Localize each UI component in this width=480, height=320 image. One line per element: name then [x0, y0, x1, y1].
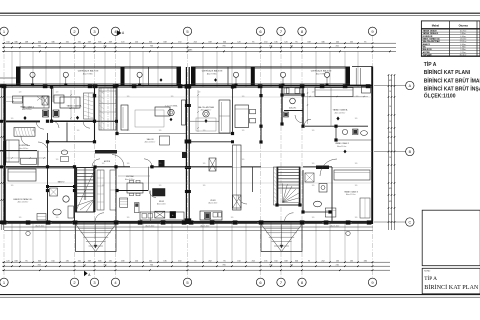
svg-text:120: 120 — [242, 130, 245, 132]
right vertical dimension chain — [388, 75, 390, 230]
right wall y133.5 — [190, 133, 233, 135]
left hall dark counter — [95, 150, 117, 154]
svg-text:120: 120 — [159, 163, 162, 165]
svg-text:120: 120 — [355, 118, 358, 120]
left wall y133.5 living — [117, 133, 186, 135]
grid axis dashed lines — [3, 36, 5, 277]
windows in bottom wall — [8, 221, 26, 223]
svg-text:9.98m²: 9.98m² — [460, 48, 466, 51]
svg-text:120: 120 — [312, 185, 315, 187]
svg-text:YATAK ODASI 2: YATAK ODASI 2 — [335, 142, 349, 145]
svg-text:Alan:13.18m²: Alan:13.18m² — [18, 201, 29, 204]
svg-text:Alan:12.0m²: Alan:12.0m² — [346, 193, 356, 196]
left pantry shelf — [120, 198, 128, 207]
left wall x94.5 — [94, 85, 96, 142]
svg-text:120: 120 — [127, 130, 130, 132]
left lower vertical walls — [47, 168, 49, 222]
left lower-left wardrobe — [14, 128, 35, 137]
svg-text:120: 120 — [312, 163, 315, 165]
svg-text:120: 120 — [389, 143, 392, 145]
svg-text:Alan:0.20m²: Alan:0.20m² — [208, 202, 218, 205]
svg-text:120: 120 — [355, 185, 358, 187]
svg-text:120: 120 — [77, 130, 80, 132]
window axis light verticals bottom — [11, 222, 13, 262]
left entry protrusion — [76, 224, 117, 252]
grid bubbles top — [0, 27, 8, 35]
svg-text:120: 120 — [11, 185, 14, 187]
svg-text:120: 120 — [127, 96, 130, 98]
interior dim string x307.5 — [307, 88, 309, 124]
svg-text:BİRİNCİ KAT PLAN: BİRİNCİ KAT PLAN — [424, 284, 479, 291]
svg-text:Alan:8.20m²: Alan:8.20m² — [125, 178, 135, 181]
svg-text:KİLER: KİLER — [210, 199, 216, 202]
svg-text:YATAK ODASI 3: YATAK ODASI 3 — [344, 191, 358, 194]
svg-text:MUTFAK: MUTFAK — [126, 175, 134, 178]
right small wc below bedroom — [335, 126, 337, 140]
interior dim string y176 mid — [118, 175, 150, 177]
right stair — [277, 167, 300, 205]
interior dim string y158 — [6, 157, 46, 159]
svg-text:YATAK ODASI: YATAK ODASI — [423, 30, 437, 33]
svg-text:345: 345 — [389, 173, 392, 175]
svg-text:SALON: SALON — [147, 138, 154, 141]
svg-text:BALKON: BALKON — [423, 48, 432, 51]
svg-text:EBEVEYN YATAK OD.: EBEVEYN YATAK OD. — [13, 198, 33, 201]
left wall bedroom divider x51.5 — [51, 87, 53, 121]
internal reference line y167.5 — [5, 167, 372, 169]
svg-text:YATAK ODASI 1: YATAK ODASI 1 — [20, 105, 34, 108]
svg-text:Alan:22.61m²: Alan:22.61m² — [145, 141, 156, 144]
svg-text:Mahal: Mahal — [432, 23, 440, 27]
right wc core — [281, 86, 283, 124]
svg-text:120: 120 — [203, 185, 206, 187]
right sofa strip — [219, 100, 230, 133]
svg-text:BANYO: BANYO — [58, 180, 65, 183]
balcony column marker — [63, 72, 68, 77]
page bottom border — [0, 294, 480, 296]
left wall x117 — [116, 85, 118, 134]
left closet strip x99-116 — [99, 88, 116, 130]
svg-text:120: 120 — [159, 185, 162, 187]
svg-text:120: 120 — [19, 163, 22, 165]
title block bottom right — [422, 268, 480, 294]
bottom terrace strip — [4, 226, 373, 228]
svg-text:KORİDOR: KORİDOR — [423, 35, 433, 38]
svg-text:Alan 0.20m²: Alan 0.20m² — [157, 202, 167, 205]
svg-text:ÜZERİ AÇIK BALKON: ÜZERİ AÇIK BALKON — [202, 70, 223, 73]
building top main wall — [4, 85, 373, 87]
svg-text:ÜZERİ AÇIK BALKON: ÜZERİ AÇIK BALKON — [311, 70, 332, 73]
right salon round table — [203, 111, 209, 117]
left vertical dimension chain — [0, 85, 2, 230]
svg-text:Alan:9.98m²: Alan:9.98m² — [207, 72, 218, 75]
left bed 2 — [60, 97, 80, 108]
svg-text:345: 345 — [389, 201, 392, 203]
section marker bottom — [84, 271, 88, 277]
svg-text:120: 120 — [19, 92, 22, 94]
right entry protrusion — [261, 224, 302, 252]
svg-text:120: 120 — [127, 163, 130, 165]
svg-text:120: 120 — [203, 163, 206, 165]
svg-text:YATAK ODASI 2: YATAK ODASI 2 — [423, 32, 439, 35]
balcony column marker — [233, 72, 238, 77]
right thin wall x331 — [330, 87, 332, 126]
svg-text:95: 95 — [389, 157, 391, 159]
wall column blobs bottom — [2, 220, 7, 224]
left corridor vertical x67 — [66, 122, 68, 141]
svg-text:Alan:3.20m²: Alan:3.20m² — [145, 225, 155, 228]
svg-text:3.20m²: 3.20m² — [460, 51, 466, 54]
right bedroom mid bed — [235, 105, 249, 128]
svg-text:Alan:4.40m²: Alan:4.40m² — [19, 147, 29, 150]
left small wc fixtures — [61, 150, 67, 155]
right lower corner room (bedroom) — [334, 170, 370, 180]
svg-text:Alan:9.98m²: Alan:9.98m² — [316, 72, 327, 75]
bottom dimension chain — [2, 261, 390, 263]
right bedroom A — [305, 125, 368, 127]
right exterior wall — [371, 67, 373, 224]
right walls y167 — [190, 166, 232, 168]
svg-text:ANTRE: ANTRE — [423, 51, 431, 54]
svg-text:SALON+MUTFAK: SALON+MUTFAK — [423, 40, 441, 43]
svg-text:120: 120 — [11, 118, 14, 120]
svg-text:BİRİNCİ KAT BRÜT İMAR A: BİRİNCİ KAT BRÜT İMAR A — [424, 77, 480, 84]
svg-text:ANTRE: ANTRE — [104, 160, 111, 163]
left kitchen fridge — [135, 203, 140, 213]
balcony column marker — [30, 72, 35, 77]
svg-text:Oturma: Oturma — [459, 23, 469, 27]
interior wall junction blobs — [46, 120, 49, 123]
left round table — [168, 109, 174, 115]
svg-text:13.18m²: 13.18m² — [460, 37, 467, 40]
left dresser — [13, 96, 23, 103]
area table top right — [421, 21, 480, 57]
left radiator boxes — [43, 110, 49, 117]
left table — [155, 107, 170, 116]
svg-text:120: 120 — [355, 163, 358, 165]
svg-text:120: 120 — [389, 132, 392, 134]
svg-text:Alan:3.20m²: Alan:3.20m² — [35, 225, 45, 228]
svg-text:95: 95 — [389, 106, 391, 108]
svg-text:DUŞ+WC: DUŞ+WC — [289, 108, 297, 110]
left wall y167 — [6, 166, 74, 168]
internal reference line y183 — [5, 182, 372, 184]
svg-text:4.40m²: 4.40m² — [460, 35, 466, 38]
svg-text:120: 120 — [56, 92, 59, 94]
svg-text:KORİDOR: KORİDOR — [19, 144, 29, 147]
top dimension chain — [2, 42, 396, 44]
right corridor wall y141.8 — [190, 141, 233, 143]
svg-text:YATAK ODASI A: YATAK ODASI A — [67, 104, 82, 107]
svg-text:120: 120 — [102, 92, 105, 94]
interior dim string y96.5 right — [305, 96, 368, 98]
left bathroom — [63, 196, 69, 202]
left lower bedroom bed — [8, 169, 36, 181]
left corridor walls — [47, 133, 49, 168]
left kitchen divider verticals — [148, 167, 150, 191]
left living rug — [135, 110, 164, 127]
right entry door — [285, 213, 294, 222]
svg-text:1.98m²: 1.98m² — [460, 45, 466, 48]
svg-text:120: 120 — [32, 130, 35, 132]
left edge wall stubs — [0, 120, 3, 123]
left lower room dresser — [37, 214, 46, 221]
svg-text:Alan:9.98m²: Alan:9.98m² — [83, 72, 94, 75]
balcony band 16-181 — [16, 66, 181, 68]
row bubbles A B C — [374, 85, 406, 87]
svg-text:120: 120 — [231, 217, 234, 219]
svg-text:TİP A: TİP A — [424, 275, 437, 282]
window axis light verticals top — [11, 51, 13, 87]
svg-text:ÜZERİ AÇIK BALKON: ÜZERİ AÇIK BALKON — [78, 70, 99, 73]
svg-text:95: 95 — [389, 91, 391, 93]
left corridor extra walls — [0, 150, 37, 152]
svg-text:120: 120 — [102, 185, 105, 187]
central party wall — [185, 67, 187, 222]
left door arcs — [36, 121, 44, 129]
interior dim string x198 — [197, 90, 199, 132]
svg-text:BANYO: BANYO — [423, 43, 431, 46]
svg-text:120: 120 — [312, 130, 315, 132]
svg-text:BİRİNCİ KAT BRÜT İNŞAA: BİRİNCİ KAT BRÜT İNŞAA — [424, 85, 480, 92]
left stairwell — [76, 168, 95, 213]
wall column blobs top — [2, 84, 7, 88]
svg-text:120: 120 — [56, 159, 59, 161]
svg-text:YATAK ODASI A: YATAK ODASI A — [333, 109, 348, 112]
svg-text:120: 120 — [312, 92, 315, 94]
section marker top — [117, 30, 122, 36]
right wall x261 — [260, 85, 262, 142]
balcony column marker — [324, 72, 329, 77]
right kitchen — [209, 158, 216, 171]
balcony band 191-350 — [191, 66, 350, 68]
svg-text:EBEV. YATAK OD.: EBEV. YATAK OD. — [423, 37, 441, 40]
svg-text:345: 345 — [389, 80, 392, 82]
svg-text:120: 120 — [159, 130, 162, 132]
right tall cabinet x232-241 — [233, 145, 242, 210]
svg-text:BİRİNCİ KAT PLANI: BİRİNCİ KAT PLANI — [424, 69, 471, 76]
svg-text:22.61m²: 22.61m² — [460, 40, 467, 43]
svg-text:120: 120 — [127, 217, 130, 219]
interior dim string x71 — [70, 90, 72, 120]
svg-text:345: 345 — [389, 188, 392, 190]
svg-text:120: 120 — [171, 96, 174, 98]
left bed 1 — [23, 96, 49, 108]
left dining table — [127, 183, 143, 193]
right bath lower — [302, 170, 304, 212]
left kitchen appliance dark — [153, 189, 166, 197]
left kitchen counters — [140, 212, 184, 220]
grid bubbles bottom — [0, 278, 8, 286]
left exterior wall — [4, 85, 6, 224]
svg-text:Alan:11.0m²: Alan:11.0m² — [337, 145, 347, 148]
svg-text:120: 120 — [242, 159, 245, 161]
left bedroom1 dim line — [5, 101, 23, 103]
svg-text:KONU:: KONU: — [424, 271, 431, 273]
svg-text:120: 120 — [102, 163, 105, 165]
svg-text:120: 120 — [19, 217, 22, 219]
svg-text:120: 120 — [356, 96, 359, 98]
svg-text:Alan:14.76m²: Alan:14.76m² — [335, 111, 346, 114]
svg-text:Alan 9.05m²: Alan 9.05m² — [22, 108, 32, 111]
internal reference line y97 — [5, 96, 372, 98]
svg-text:SALON+MUTFAK: SALON+MUTFAK — [198, 106, 215, 109]
right wall x232 — [232, 87, 234, 134]
right wall x252 short — [252, 167, 254, 192]
svg-text:4.40m²: 4.40m² — [460, 43, 466, 46]
right salon rug — [196, 118, 216, 131]
svg-text:10.76m²: 10.76m² — [460, 30, 467, 33]
left kitchen wall y190.5 — [117, 190, 148, 192]
left lower-left bed — [6, 140, 19, 162]
page top border — [0, 12, 480, 14]
left hall closets — [97, 170, 104, 210]
svg-text:120: 120 — [312, 217, 315, 219]
key plan empty box — [422, 210, 480, 266]
svg-text:120: 120 — [355, 217, 358, 219]
left living sofa — [121, 105, 128, 130]
left hall bottom wall y121 — [96, 120, 117, 122]
svg-text:120: 120 — [56, 217, 59, 219]
left tv unit — [182, 100, 186, 125]
balcony column marker — [280, 72, 285, 77]
svg-text:120: 120 — [203, 130, 206, 132]
balcony diamond marks — [160, 78, 163, 82]
right open terrace — [352, 66, 372, 68]
svg-text:95: 95 — [389, 121, 391, 123]
svg-text:120: 120 — [198, 92, 201, 94]
svg-text:TİP A: TİP A — [424, 61, 437, 68]
left clipped terrace — [0, 77, 16, 79]
svg-text:ÖLÇEK:1/100: ÖLÇEK:1/100 — [424, 93, 456, 100]
svg-text:Alan:22.61m²: Alan:22.61m² — [201, 109, 212, 112]
right stair hatch strip — [274, 167, 278, 205]
svg-text:120: 120 — [242, 96, 245, 98]
balcony column marker — [137, 72, 142, 77]
svg-text:C: C — [408, 221, 411, 225]
left bath wall y186.5 — [48, 186, 75, 188]
internal reference line y151.5 — [5, 151, 372, 153]
svg-text:345: 345 — [389, 214, 392, 216]
right salon wall line y121 — [190, 120, 219, 122]
svg-text:9.80m²: 9.80m² — [460, 32, 466, 35]
svg-text:Alan:3.20m²: Alan:3.20m² — [200, 225, 210, 228]
svg-text:Alan:3.20m²: Alan:3.20m² — [330, 225, 340, 228]
left wall y121 — [6, 120, 40, 122]
right lower wardrobe — [360, 198, 370, 218]
svg-text:KİLER: KİLER — [159, 200, 165, 203]
building bottom main wall — [4, 221, 373, 223]
left bedroom2 wardrobe — [84, 93, 94, 119]
